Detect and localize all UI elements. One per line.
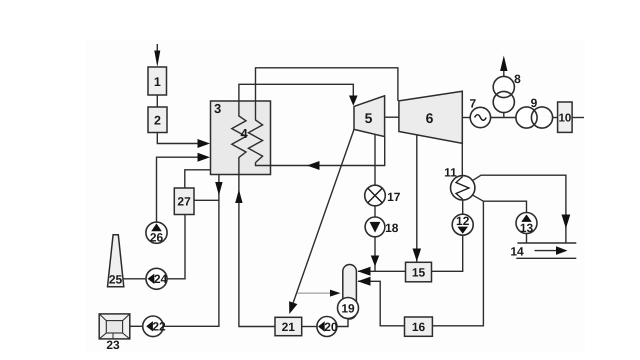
svg-text:24: 24 (154, 272, 168, 286)
wire generator7 to transformer9 (491, 117, 517, 119)
transformer 9 main (516, 96, 553, 128)
svg-text:2: 2 (154, 114, 161, 128)
box 1 fuel supply (148, 67, 167, 95)
svg-text:4: 4 (241, 126, 249, 141)
wire thin tap to deaerator19 (297, 290, 341, 297)
svg-text:19: 19 (341, 301, 355, 315)
wire pump20 to box21 (302, 326, 317, 328)
wire transformer9 to box10 (552, 117, 557, 119)
svg-text:13: 13 (520, 221, 534, 235)
svg-text:27: 27 (177, 195, 191, 209)
boiler 3 (211, 101, 271, 175)
wire box10 output (572, 117, 584, 119)
svg-text:23: 23 (106, 338, 120, 352)
svg-text:7: 7 (469, 97, 476, 111)
wire shaft turbine5 to turbine6 (385, 116, 399, 118)
transformer 8 auxiliary (493, 72, 521, 113)
generator 7 (469, 97, 490, 128)
svg-text:17: 17 (387, 190, 401, 204)
chimney 25 (108, 235, 124, 287)
wire boiler drain down to pump22 (163, 175, 222, 327)
wire cooler23 to pump22 (128, 325, 143, 327)
wire feedwater box21 up into boiler (235, 175, 275, 327)
wire chimney25 to pump24 (122, 278, 146, 280)
wire box27 top to boiler (185, 170, 211, 188)
pump 12 (452, 214, 473, 235)
svg-text:8: 8 (514, 72, 521, 86)
heat exchanger 11 (444, 166, 475, 201)
pump 24 (146, 268, 167, 289)
wire pump13 to pipe14 (526, 234, 528, 244)
wire pump24 to box27 (167, 215, 185, 279)
box 27 air preheater (174, 188, 194, 215)
wire box15 to deaerator19 (358, 267, 406, 276)
wire box16 to deaerator19 (358, 277, 405, 326)
svg-text:26: 26 (150, 231, 164, 245)
pump 20 (317, 317, 338, 337)
wire turbine6 exhaust to heat exchanger 11 (461, 143, 463, 175)
svg-text:18: 18 (385, 221, 399, 235)
wire box1 to box2 (156, 95, 158, 107)
box 15 heater (406, 262, 432, 282)
wire valve17 to pump18 (374, 206, 376, 217)
cooler 23 ash removal (99, 314, 130, 352)
svg-text:10: 10 (559, 113, 572, 125)
wire fan26 to boiler (157, 153, 211, 222)
pump 18 (365, 217, 399, 237)
deaerator 19 (338, 265, 359, 320)
wire box27 right to drain line (194, 199, 219, 201)
svg-text:12: 12 (456, 214, 470, 228)
wire transformer8 stem (503, 113, 505, 118)
wire box2 to boiler (157, 133, 210, 149)
wire turbine5 extraction diagonal to box21 (289, 129, 354, 314)
svg-text:6: 6 (426, 110, 434, 126)
wire shaft turbine6 to generator7 (462, 117, 470, 119)
fan 26 (146, 222, 167, 245)
svg-text:3: 3 (214, 101, 221, 116)
wire district heating supply from hx11 (471, 175, 570, 243)
svg-text:1: 1 (154, 75, 161, 89)
pump 22 (143, 316, 166, 337)
wire turbine6 extraction down to box15 (413, 135, 422, 262)
svg-text:20: 20 (324, 320, 338, 334)
box 10 grid connection (558, 102, 573, 132)
svg-text:25: 25 (109, 273, 123, 287)
wire deaerator19 to pump20 (337, 314, 348, 327)
svg-text:15: 15 (412, 266, 426, 280)
coil 4 left evaporator with main steam line to turbine 5 (232, 84, 358, 174)
pipe 14 district heating network (510, 243, 576, 259)
wire hx11 to pump12 (462, 200, 464, 214)
svg-text:16: 16 (412, 320, 426, 334)
wire cold reheat from turbine 5 exhaust to reheater (256, 137, 385, 170)
box 16 heater (405, 317, 433, 336)
box 21 feedwater tank (275, 317, 302, 335)
wire pump12 to box15 (432, 235, 463, 271)
svg-text:9: 9 (531, 96, 538, 110)
wire district heating return to pump13 and box16 (432, 194, 526, 325)
svg-text:21: 21 (282, 320, 296, 334)
wire pump18 down to condensate line (371, 237, 379, 271)
box 2 fuel preparation (148, 107, 167, 133)
valve 17 (365, 185, 401, 206)
svg-text:22: 22 (152, 320, 166, 334)
turbine 5 high pressure (354, 96, 385, 137)
pump 13 (516, 213, 537, 236)
turbine 6 low pressure (399, 91, 462, 143)
wire turbine5 tap down to valve 17 (374, 133, 376, 185)
svg-text:5: 5 (365, 110, 373, 126)
svg-text:14: 14 (510, 245, 524, 259)
wire transformer8 output arrow (500, 56, 507, 77)
svg-text:11: 11 (444, 166, 457, 180)
wire fuel inlet arrow into box 1 (154, 44, 160, 67)
coil 4 right reheater with hot reheat line to turbine 6 (248, 68, 398, 163)
